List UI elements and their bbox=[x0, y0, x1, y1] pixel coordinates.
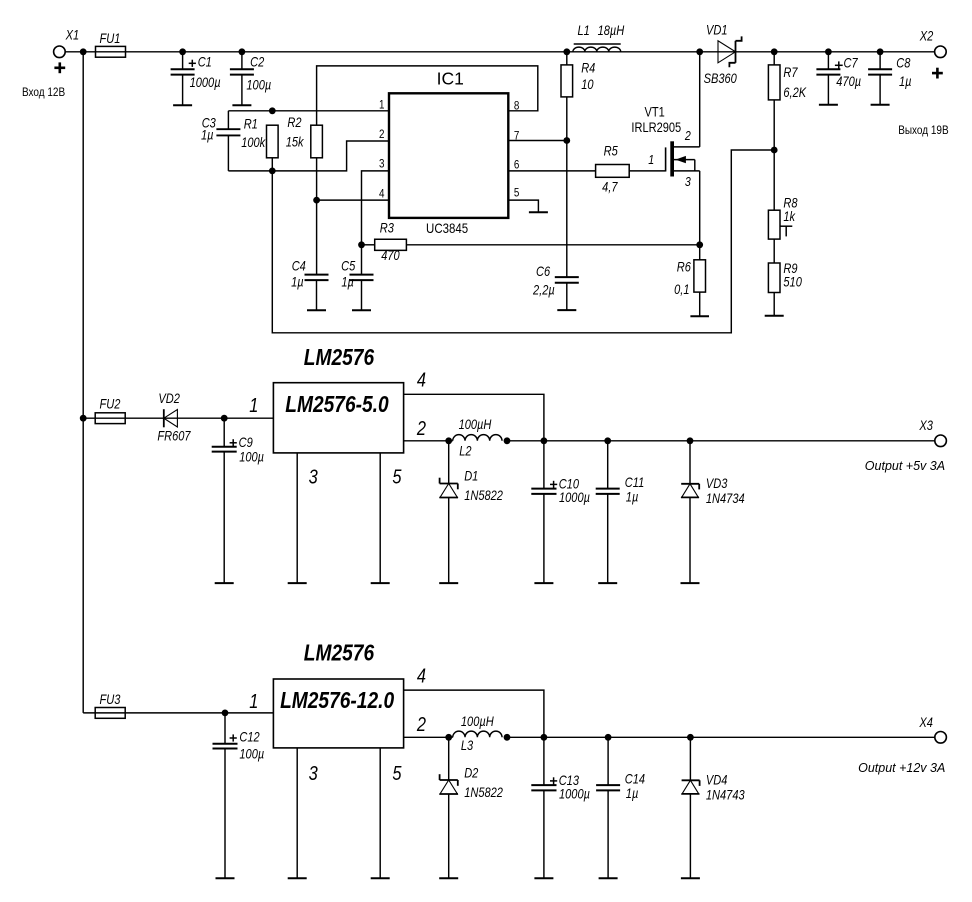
polarity plus C13 bbox=[550, 780, 557, 782]
diode VD2 FR607 bbox=[164, 409, 178, 427]
junction L2 right bbox=[504, 437, 511, 444]
junction C2 top bbox=[239, 48, 246, 55]
diode VD3 zener 1N4734 bbox=[689, 441, 691, 484]
polarity plus C10 bbox=[550, 483, 557, 485]
ground C11 bbox=[598, 582, 617, 584]
resistor R7 bbox=[773, 52, 775, 65]
svg-text:SB360: SB360 bbox=[704, 71, 737, 86]
svg-text:1N5822: 1N5822 bbox=[464, 488, 503, 503]
ground pin3 U3 bbox=[288, 877, 307, 879]
wire pin5 stub bbox=[508, 200, 538, 212]
svg-text:1: 1 bbox=[249, 690, 258, 713]
svg-text:510: 510 bbox=[783, 274, 802, 289]
svg-text:C8: C8 bbox=[896, 56, 910, 71]
svg-text:1000µ: 1000µ bbox=[559, 490, 590, 505]
terminal X1 bbox=[54, 46, 66, 58]
svg-text:18µH: 18µH bbox=[598, 23, 625, 38]
junction C9 top bbox=[221, 415, 228, 422]
wire output row to X3 bbox=[507, 440, 935, 442]
polarity plus C12 bbox=[230, 737, 237, 739]
ground VD4 bbox=[681, 877, 700, 879]
junction R1 top bbox=[269, 107, 276, 114]
junction L2 left D1 node bbox=[445, 437, 452, 444]
fuse FU1 bbox=[96, 46, 126, 57]
svg-text:IRLR2905: IRLR2905 bbox=[631, 120, 681, 135]
svg-text:100µ: 100µ bbox=[239, 449, 264, 464]
svg-text:C6: C6 bbox=[536, 264, 550, 279]
wire pin7 to R4 bottom bbox=[508, 140, 567, 142]
fuse FU2 bbox=[95, 413, 125, 424]
inductor L3 bbox=[453, 731, 502, 737]
svg-text:IC1: IC1 bbox=[437, 69, 464, 89]
ground pin5 bbox=[529, 211, 548, 213]
capacitor C8 bbox=[879, 52, 881, 69]
terminal X4 bbox=[935, 732, 947, 744]
capacitor C3 bbox=[227, 111, 229, 129]
diode D2 1N5822 bbox=[448, 737, 450, 780]
svg-text:2,2µ: 2,2µ bbox=[532, 282, 555, 297]
capacitor C14 bbox=[607, 737, 609, 785]
junction C13 pin4 node bbox=[541, 734, 548, 741]
wire R3 to VT1 source node bbox=[406, 244, 699, 246]
junction C12 top bbox=[222, 710, 229, 717]
capacitor C5 bbox=[361, 245, 363, 275]
svg-text:X3: X3 bbox=[919, 418, 934, 433]
resistor R4 bbox=[566, 52, 568, 65]
ground C10 bbox=[534, 582, 553, 584]
svg-text:R3: R3 bbox=[380, 221, 394, 236]
junction R7 R8 feedback node bbox=[771, 147, 778, 154]
svg-text:LM2576-5.0: LM2576-5.0 bbox=[285, 391, 388, 417]
svg-text:C5: C5 bbox=[341, 258, 355, 273]
svg-text:C12: C12 bbox=[239, 729, 259, 744]
capacitor C7 bbox=[827, 52, 829, 69]
svg-text:1µ: 1µ bbox=[341, 274, 354, 289]
wire pin2 U2 to L2 bbox=[404, 440, 453, 442]
svg-text:R7: R7 bbox=[783, 65, 798, 80]
junction VD3 top bbox=[687, 437, 694, 444]
wire pin4 U2 to output node bbox=[404, 394, 544, 441]
capacitor C4 bbox=[316, 200, 318, 275]
svg-text:1N4734: 1N4734 bbox=[706, 491, 745, 506]
svg-text:470µ: 470µ bbox=[836, 74, 861, 89]
polarity plus at X1 bbox=[54, 67, 65, 70]
svg-text:R1: R1 bbox=[244, 116, 258, 131]
svg-text:0,1: 0,1 bbox=[674, 282, 689, 297]
diode VD1 SB360 bbox=[718, 36, 742, 67]
svg-text:FU1: FU1 bbox=[100, 31, 121, 46]
svg-text:C2: C2 bbox=[250, 55, 264, 70]
svg-text:1k: 1k bbox=[783, 209, 795, 224]
polarity plus C1 bbox=[189, 62, 196, 64]
svg-text:L2: L2 bbox=[459, 443, 471, 458]
svg-text:2: 2 bbox=[416, 712, 426, 735]
svg-text:C9: C9 bbox=[239, 435, 253, 450]
svg-text:1µ: 1µ bbox=[626, 489, 639, 504]
polarity plus C9 bbox=[230, 442, 237, 444]
junction input node at bus top bbox=[80, 48, 87, 55]
svg-text:1N4743: 1N4743 bbox=[706, 788, 745, 803]
svg-text:100µH: 100µH bbox=[461, 714, 494, 729]
ground pin3 U2 bbox=[288, 582, 307, 584]
svg-text:1: 1 bbox=[379, 98, 384, 111]
svg-text:FU2: FU2 bbox=[100, 397, 121, 412]
wire divider bottom to pin2 bbox=[228, 141, 389, 171]
svg-text:Выход 19В: Выход 19В bbox=[898, 124, 948, 137]
wire left bus vertical bbox=[82, 52, 84, 713]
terminal X3 bbox=[935, 435, 947, 447]
svg-text:2: 2 bbox=[684, 128, 691, 143]
diode VD4 zener 1N4743 bbox=[689, 737, 691, 780]
svg-text:VD4: VD4 bbox=[706, 772, 728, 787]
svg-text:3: 3 bbox=[309, 465, 318, 488]
wire FU3 row bbox=[83, 712, 273, 714]
ground R9 bbox=[765, 315, 784, 317]
svg-text:5: 5 bbox=[392, 761, 402, 784]
ground pin5 U3 bbox=[371, 877, 390, 879]
ground C4 bbox=[307, 309, 326, 311]
ground C9 bbox=[215, 582, 234, 584]
junction R1 bottom feedback node bbox=[269, 168, 276, 175]
svg-text:1000µ: 1000µ bbox=[190, 75, 221, 90]
resistor R5 bbox=[596, 165, 630, 178]
ground C13 bbox=[534, 877, 553, 879]
svg-text:5: 5 bbox=[392, 465, 402, 488]
junction pin7 R4 C6 node bbox=[563, 137, 570, 144]
svg-text:D1: D1 bbox=[464, 468, 478, 483]
wire pin1 from C3 loop to IC1 bbox=[228, 110, 389, 112]
ground C5 bbox=[352, 309, 371, 311]
svg-text:1µ: 1µ bbox=[899, 74, 912, 89]
junction bus FU2 node bbox=[80, 415, 87, 422]
fuse FU3 bbox=[95, 708, 125, 719]
wire pin8 Vref loop to R2 top bbox=[317, 66, 538, 125]
op-amp controller IC1 UC3845 box bbox=[389, 93, 508, 218]
junction C10 pin4 node bbox=[541, 437, 548, 444]
capacitor C2 bbox=[241, 52, 243, 69]
svg-text:X1: X1 bbox=[65, 27, 79, 42]
wire pin3 U3 to ground bbox=[296, 748, 298, 878]
capacitor C12 bbox=[224, 713, 226, 744]
svg-text:4: 4 bbox=[417, 368, 426, 391]
svg-text:1: 1 bbox=[249, 394, 258, 417]
polarity plus at X2 bbox=[932, 72, 943, 75]
svg-text:VT1: VT1 bbox=[645, 105, 665, 120]
svg-text:X2: X2 bbox=[919, 28, 934, 43]
ground C6 bbox=[557, 309, 576, 311]
svg-text:100µ: 100µ bbox=[239, 746, 264, 761]
junction C14 top bbox=[605, 734, 612, 741]
svg-text:Output +12v 3A: Output +12v 3A bbox=[858, 761, 945, 775]
capacitor C11 bbox=[607, 441, 609, 489]
svg-text:C7: C7 bbox=[844, 56, 859, 71]
capacitor C13 bbox=[543, 737, 545, 785]
svg-text:X4: X4 bbox=[919, 715, 934, 730]
wire pin6 to R5 bbox=[508, 170, 595, 172]
svg-text:VD1: VD1 bbox=[706, 22, 728, 37]
ground C8 bbox=[871, 104, 890, 106]
svg-text:Output +5v 3A: Output +5v 3A bbox=[865, 459, 945, 473]
svg-text:C4: C4 bbox=[292, 258, 306, 273]
inductor L1 bbox=[573, 47, 621, 52]
capacitor C6 bbox=[566, 141, 568, 278]
ground C2 bbox=[232, 104, 251, 106]
resistor R2 bbox=[311, 125, 323, 158]
svg-text:D2: D2 bbox=[464, 765, 478, 780]
svg-text:1µ: 1µ bbox=[291, 274, 304, 289]
svg-text:6: 6 bbox=[514, 159, 519, 172]
svg-text:VD3: VD3 bbox=[706, 476, 728, 491]
resistor R3 bbox=[362, 244, 375, 246]
wire pin4 to R2 bottom bbox=[317, 199, 389, 201]
trimmer tap R8 bbox=[780, 225, 792, 227]
junction L3 left D2 node bbox=[445, 734, 452, 741]
inductor L2 bbox=[453, 435, 502, 441]
svg-text:3: 3 bbox=[309, 761, 318, 784]
svg-text:4: 4 bbox=[417, 664, 426, 687]
resistor R8 trimmer bbox=[773, 150, 775, 210]
svg-text:UC3845: UC3845 bbox=[426, 220, 468, 236]
svg-text:15k: 15k bbox=[286, 134, 305, 149]
ground C12 bbox=[216, 877, 235, 879]
svg-text:VD2: VD2 bbox=[158, 391, 180, 406]
ground VD3 bbox=[681, 582, 700, 584]
svg-text:C11: C11 bbox=[625, 475, 644, 490]
capacitor C9 bbox=[223, 418, 225, 447]
svg-text:1: 1 bbox=[648, 152, 654, 167]
wire FU2 row bbox=[83, 417, 273, 419]
junction C1 top bbox=[179, 48, 186, 55]
svg-text:FR607: FR607 bbox=[157, 429, 191, 444]
svg-text:4: 4 bbox=[379, 187, 384, 200]
junction L3 right bbox=[504, 734, 511, 741]
svg-text:6,2K: 6,2K bbox=[783, 85, 806, 100]
ground C7 bbox=[819, 104, 838, 106]
ground D2 bbox=[439, 877, 458, 879]
wire pin3 to RC node bbox=[362, 171, 390, 245]
terminal X2 bbox=[935, 46, 947, 58]
ground D1 bbox=[439, 582, 458, 584]
svg-text:R6: R6 bbox=[677, 260, 691, 275]
resistor R1 bbox=[267, 125, 279, 158]
svg-text:R4: R4 bbox=[581, 61, 595, 76]
junction VD4 top bbox=[687, 734, 694, 741]
svg-text:470: 470 bbox=[381, 248, 400, 263]
wire top rail from X1 to X2 bbox=[65, 51, 934, 53]
svg-text:100µ: 100µ bbox=[246, 77, 271, 92]
svg-text:3: 3 bbox=[379, 158, 384, 171]
svg-text:1N5822: 1N5822 bbox=[464, 785, 503, 800]
polarity plus C7 bbox=[835, 64, 843, 66]
junction C11 top bbox=[604, 437, 611, 444]
svg-text:1µ: 1µ bbox=[626, 786, 639, 801]
capacitor C1 bbox=[182, 52, 184, 69]
transistor Q1 VT1 IRLR2905 bbox=[629, 52, 700, 245]
svg-text:1µ: 1µ bbox=[201, 128, 214, 143]
regulator U3 LM2576-12.0 box bbox=[273, 679, 403, 748]
wire pin2 U3 to L3 bbox=[404, 736, 453, 738]
junction VT1 drain at rail bbox=[696, 48, 703, 55]
svg-text:C1: C1 bbox=[198, 55, 212, 70]
svg-text:100µH: 100µH bbox=[459, 417, 492, 432]
wire pin4 U3 to output node bbox=[404, 690, 544, 737]
svg-text:R2: R2 bbox=[287, 115, 301, 130]
junction R4 top bbox=[563, 48, 570, 55]
wire pin5 U3 to ground bbox=[379, 748, 381, 878]
svg-text:4,7: 4,7 bbox=[602, 180, 618, 195]
svg-text:1000µ: 1000µ bbox=[559, 787, 590, 802]
wire output row to X4 bbox=[507, 736, 935, 738]
svg-text:5: 5 bbox=[514, 187, 519, 200]
svg-text:R5: R5 bbox=[604, 143, 618, 158]
svg-text:2: 2 bbox=[379, 128, 384, 141]
junction R7 top bbox=[771, 48, 778, 55]
capacitor C10 bbox=[543, 441, 545, 489]
junction pin4 node bbox=[313, 197, 320, 204]
ground pin5 U2 bbox=[371, 582, 390, 584]
svg-text:Вход 12В: Вход 12В bbox=[22, 86, 65, 99]
svg-text:8: 8 bbox=[514, 100, 519, 113]
ground C1 bbox=[173, 104, 192, 106]
svg-text:L3: L3 bbox=[461, 738, 473, 753]
ground R6 bbox=[690, 315, 709, 317]
svg-text:10: 10 bbox=[581, 77, 593, 92]
svg-text:L1: L1 bbox=[578, 23, 590, 38]
svg-text:7: 7 bbox=[514, 129, 519, 142]
resistor R9 bbox=[773, 239, 775, 263]
wire feedback loop to divider bbox=[272, 150, 774, 333]
svg-text:LM2576: LM2576 bbox=[304, 344, 374, 370]
wire pin5 U2 to ground bbox=[379, 453, 381, 583]
junction C8 top bbox=[877, 48, 884, 55]
diode D1 1N5822 bbox=[448, 441, 450, 484]
svg-text:3: 3 bbox=[685, 174, 691, 189]
junction C7 top bbox=[825, 48, 832, 55]
svg-text:FU3: FU3 bbox=[100, 692, 121, 707]
ground C14 bbox=[599, 877, 618, 879]
wire pin3 U2 to ground bbox=[296, 453, 298, 583]
svg-text:100k: 100k bbox=[241, 135, 266, 150]
resistor R6 bbox=[699, 245, 701, 260]
junction R3 C5 pin3 node bbox=[358, 241, 365, 248]
regulator U2 LM2576-5.0 box bbox=[273, 383, 403, 453]
svg-text:LM2576-12.0: LM2576-12.0 bbox=[280, 687, 394, 713]
junction VT1 source node bbox=[696, 241, 703, 248]
svg-text:LM2576: LM2576 bbox=[304, 640, 374, 666]
svg-text:C14: C14 bbox=[625, 771, 645, 786]
svg-text:2: 2 bbox=[416, 416, 426, 439]
